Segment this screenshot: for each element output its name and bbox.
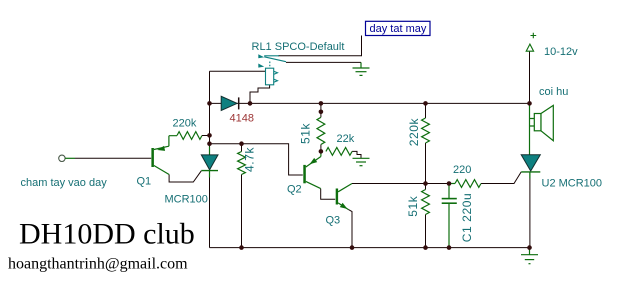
svg-text:220k: 220k	[173, 118, 197, 130]
svg-text:Q3: Q3	[326, 215, 341, 227]
svg-text:DH10DD club: DH10DD club	[19, 218, 195, 251]
svg-text:Q1: Q1	[137, 176, 152, 188]
wire 220k to rail	[202, 135, 210, 137]
net label box: day tat may	[366, 21, 431, 35]
transistor Q1	[151, 136, 177, 175]
svg-text:RL1 SPCO-Default: RL1 SPCO-Default	[252, 41, 345, 53]
wire bottom bus	[210, 247, 530, 249]
svg-text:4.7k: 4.7k	[243, 147, 257, 172]
svg-text:coi hu: coi hu	[539, 86, 568, 98]
svg-text:day tat may: day tat may	[370, 23, 427, 35]
svg-text:51k: 51k	[406, 195, 420, 217]
relay RL1	[258, 54, 286, 85]
wire Q2 collector to Q3 base	[321, 189, 336, 200]
wire relay coil to node	[250, 85, 270, 104]
svg-text:MCR100: MCR100	[165, 194, 208, 206]
resistor 51k	[317, 117, 325, 144]
wire Q3 emitter to bus	[349, 210, 353, 248]
wire Q3 collector net	[352, 172, 521, 184]
wire power feed	[529, 51, 531, 103]
wire node to Q2 base	[242, 144, 303, 175]
speaker LS1	[530, 103, 554, 154]
wire left rail	[209, 71, 211, 247]
wire relay common to box	[278, 36, 362, 56]
capacitor C1	[442, 184, 457, 248]
wire to relay coil	[210, 70, 266, 72]
svg-text:51k: 51k	[299, 122, 313, 144]
svg-text:22k: 22k	[337, 133, 355, 145]
wire Q1 collector to SCR gate	[169, 171, 201, 182]
svg-text:220: 220	[453, 164, 471, 176]
thyristor U1 MCR100	[201, 147, 218, 178]
svg-text:U2 MCR100: U2 MCR100	[542, 178, 603, 190]
svg-text:hoangthantrinh@gmail.com: hoangthantrinh@gmail.com	[8, 256, 188, 273]
resistor 51k lower	[422, 190, 430, 215]
wire 220 left stub	[449, 183, 455, 185]
ground 22k	[353, 158, 370, 165]
ground relay	[353, 62, 370, 75]
transistor Q3	[336, 184, 352, 210]
diode D1 4148	[221, 96, 239, 110]
svg-text:4148: 4148	[230, 113, 254, 125]
wire U2 cathode to bus	[529, 172, 531, 248]
wire Q1 base	[75, 157, 151, 159]
wire top bus	[210, 102, 530, 104]
wire 220k/51k column	[425, 103, 427, 247]
wire relay NO to ground	[286, 61, 361, 63]
wire bus to R 51k top	[320, 103, 322, 151]
power +10-12v	[526, 33, 536, 52]
svg-text:10-12v: 10-12v	[544, 46, 578, 58]
ground bottom right	[521, 248, 538, 264]
svg-text:cham tay vao day: cham tay vao day	[21, 177, 108, 189]
resistor 220k vertical	[422, 118, 430, 143]
transistor Q2	[303, 151, 321, 188]
svg-text:220k: 220k	[407, 117, 421, 146]
thyristor U2 MCR100	[521, 155, 540, 179]
wire node to R 4.7k	[210, 144, 242, 248]
resistor 22k	[326, 148, 352, 156]
resistor 220k	[177, 132, 202, 140]
wire 22k to ground	[352, 151, 361, 158]
resistor 220	[455, 180, 481, 188]
svg-text:C1 220u: C1 220u	[460, 193, 474, 243]
resistor 4.7k	[238, 152, 246, 175]
wire terminal stub	[65, 157, 75, 159]
terminal input	[59, 155, 65, 161]
svg-text:Q2: Q2	[287, 184, 302, 196]
